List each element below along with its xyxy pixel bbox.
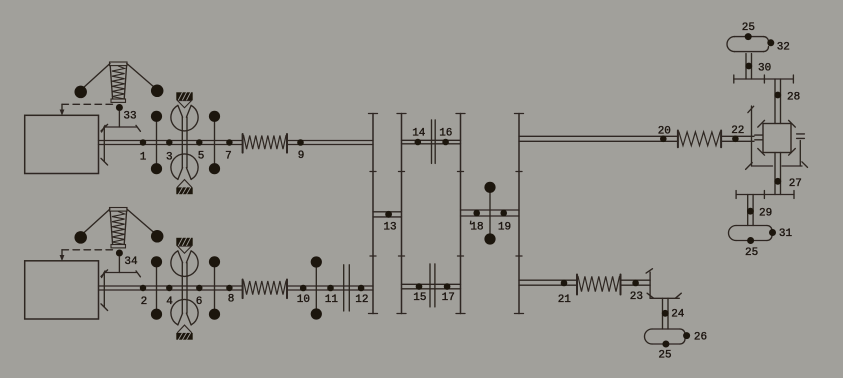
svg-text:9: 9 [298,150,305,162]
svg-text:7: 7 [225,151,232,163]
svg-text:1: 1 [140,152,147,164]
svg-text:24: 24 [671,309,685,321]
svg-text:25: 25 [745,247,758,259]
svg-text:33: 33 [123,111,136,123]
svg-text:8: 8 [228,294,235,306]
svg-text:18: 18 [470,222,483,234]
svg-text:27: 27 [789,178,802,190]
svg-text:29: 29 [759,208,772,220]
svg-text:21: 21 [558,294,572,306]
svg-text:25: 25 [658,350,671,362]
svg-text:20: 20 [658,125,671,137]
svg-text:25: 25 [742,22,755,34]
svg-text:16: 16 [439,128,452,140]
svg-text:13: 13 [383,222,396,234]
svg-text:23: 23 [630,291,643,303]
svg-text:2: 2 [141,296,148,308]
svg-text:14: 14 [412,128,426,140]
svg-text:3: 3 [166,152,173,164]
svg-text:10: 10 [297,294,310,306]
svg-text:12: 12 [355,294,368,306]
svg-text:15: 15 [413,292,426,304]
svg-text:17: 17 [442,292,455,304]
svg-text:31: 31 [779,228,793,240]
svg-text:32: 32 [777,41,790,53]
svg-text:4: 4 [166,296,173,308]
svg-text:22: 22 [731,125,744,137]
svg-text:5: 5 [198,151,205,163]
svg-text:28: 28 [787,91,800,103]
svg-text:34: 34 [124,256,138,268]
svg-text:19: 19 [498,222,511,234]
svg-text:6: 6 [196,296,203,308]
svg-text:26: 26 [694,331,707,343]
svg-text:11: 11 [325,294,339,306]
svg-text:30: 30 [758,62,771,74]
